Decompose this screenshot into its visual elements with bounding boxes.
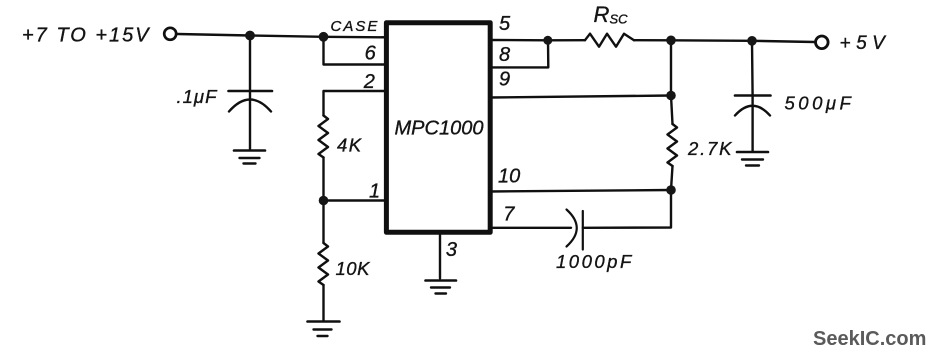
wire node B down to pin 6 [324,37,387,65]
wire node A down to capacitor C1 [249,36,251,92]
svg-text:500μF: 500μF [785,93,855,114]
svg-text:MPC1000: MPC1000 [395,118,484,140]
svg-text:8: 8 [499,44,510,66]
wire 4K to node C [322,158,324,201]
svg-text:1000pF: 1000pF [556,251,634,272]
wire node F down to capacitor C2 [751,41,754,96]
wire node F to output terminal [752,41,815,42]
wire pin 8 [490,40,548,67]
wire C3 to node H [583,190,671,228]
svg-text:9: 9 [499,69,510,91]
resistor R2 10K [322,201,324,244]
node A junction [245,31,255,41]
wire Rsc to node E [634,39,671,41]
wire input to CASE node [178,34,387,37]
resistor Rsc [585,34,634,47]
node E junction [666,36,676,46]
wire node E down to node G [670,40,672,95]
wire pin 2 [324,91,387,116]
wire pin 9 [490,96,671,98]
svg-text:3: 3 [446,239,457,261]
svg-text:7: 7 [503,204,515,226]
output terminal +5V [816,36,829,49]
wire pin 10 [490,190,671,192]
node B junction [319,32,329,42]
input terminal +7 TO +15V [164,28,176,40]
wire pin 3 to ground [439,235,441,279]
node C junction [319,196,329,206]
wire pin 7 to capacitor C3 [490,227,571,229]
svg-text:1: 1 [369,180,380,202]
wire node E to node F [671,39,752,42]
wire pin 1 [324,199,387,201]
svg-text:6: 6 [365,43,377,65]
node F junction [747,36,757,46]
svg-text:4K: 4K [337,134,363,155]
node H junction [666,185,676,195]
IC U1 MPC1000 body [386,23,490,233]
capacitor C2 500uF [735,94,771,97]
svg-text:10: 10 [498,166,520,188]
ground below C1 [234,149,265,152]
resistor R1 4K [319,116,329,158]
ground below 10K [308,320,340,323]
wire pin 5 [490,39,548,42]
svg-text:5: 5 [499,13,511,35]
ground below pin 3 [426,279,457,282]
svg-text:.1μF: .1μF [177,86,219,107]
node G junction [666,91,676,101]
svg-text:+5V: +5V [840,33,891,54]
capacitor C3 1000pF curved plate [567,210,577,247]
svg-text:2: 2 [363,71,375,93]
ground below C2 [737,151,768,154]
svg-text:2.7K: 2.7K [687,138,733,159]
wire node D to resistor Rsc [548,39,585,41]
svg-text:+7 TO +15V: +7 TO +15V [22,25,151,47]
svg-text:10K: 10K [336,258,372,279]
svg-text:CASE: CASE [331,18,380,35]
capacitor C1 .1uF [229,90,273,93]
node D junction [543,36,552,45]
svg-text:R: R [594,2,610,27]
svg-text:SeekIC.com: SeekIC.com [813,328,926,350]
resistor R3 2.7K [671,96,673,125]
capacitor C3 straight plate [582,211,584,250]
svg-text:SC: SC [610,12,629,27]
